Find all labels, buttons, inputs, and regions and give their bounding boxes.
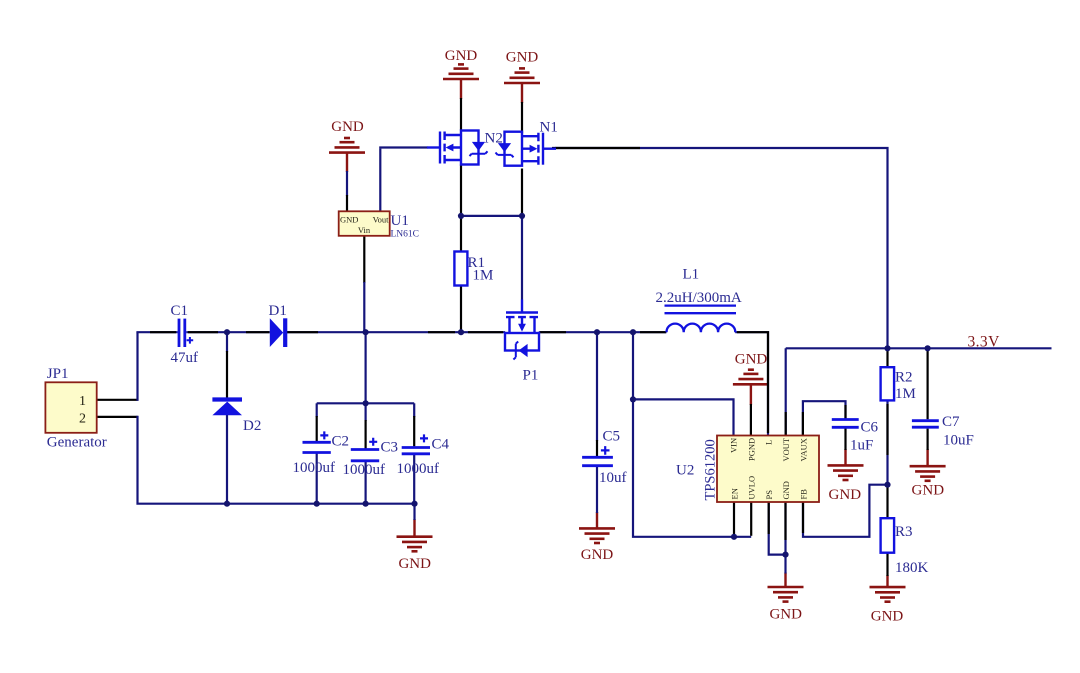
wire N2 source down bbox=[460, 165, 462, 216]
svg-text:C6: C6 bbox=[861, 420, 879, 436]
svg-text:GND: GND bbox=[331, 119, 364, 135]
wire U1 GND pin bbox=[346, 171, 348, 196]
wire FB node to R3 bbox=[886, 485, 888, 519]
wire P1 to L1 bbox=[539, 331, 667, 333]
wire L1 right to U2 L pin bbox=[735, 332, 768, 435]
svg-text:GND: GND bbox=[506, 50, 539, 66]
wire JP1 pin2 stub bbox=[97, 416, 138, 418]
wire JP1 pin2 down along bottom rail bbox=[138, 416, 415, 504]
wire N1 gate to right riser bbox=[555, 148, 888, 348]
svg-text:2: 2 bbox=[79, 412, 86, 427]
wire bottom rail to GND stem bbox=[413, 504, 415, 520]
node R1/rail bbox=[458, 329, 464, 335]
wire GND to N2 drain bbox=[460, 98, 462, 131]
svg-text:C5: C5 bbox=[603, 429, 621, 445]
wire C3 top lead bbox=[365, 403, 367, 421]
svg-text:C4: C4 bbox=[432, 437, 450, 453]
svg-text:GND: GND bbox=[781, 481, 791, 499]
wire 3.3V to C7 bbox=[926, 348, 928, 419]
wire R2 bottom to FB node bbox=[886, 400, 888, 484]
svg-text:D2: D2 bbox=[243, 418, 261, 434]
node D2/bottom rail bbox=[224, 501, 230, 507]
wire U2 GND pin down bbox=[784, 502, 786, 555]
wire D2 top bbox=[226, 332, 228, 352]
resistor R1 bbox=[454, 252, 493, 286]
svg-text:GND: GND bbox=[398, 556, 431, 572]
ground (top, above N2) bbox=[443, 48, 479, 99]
wire rail to C5 bbox=[596, 332, 598, 441]
svg-text:GND: GND bbox=[445, 48, 478, 64]
ground (above U2 PGND pin) bbox=[733, 352, 769, 406]
node PS/GND pins bbox=[782, 552, 788, 558]
svg-text:UVLO: UVLO bbox=[747, 476, 757, 500]
wire VIN node to U2 VIN pin bbox=[633, 399, 734, 435]
svg-text:EN: EN bbox=[730, 488, 740, 499]
wire JP1 pin1 up to input rail bbox=[136, 332, 138, 401]
svg-text:Vout: Vout bbox=[373, 215, 390, 225]
svg-text:GND: GND bbox=[581, 547, 614, 563]
node U1 Vin/rail bbox=[363, 329, 369, 335]
ground (below R3) bbox=[870, 575, 906, 625]
resistor R2 bbox=[881, 367, 916, 402]
svg-text:1: 1 bbox=[79, 394, 86, 409]
node C2/bottom rail bbox=[314, 501, 320, 507]
op-amp U2 TPS61200 bbox=[676, 436, 819, 503]
svg-text:LN61C: LN61C bbox=[391, 230, 420, 240]
wire C5 bottom lead bbox=[596, 466, 598, 513]
svg-text:1M: 1M bbox=[895, 386, 916, 402]
wire VIN node down to EN/UVLO bbox=[633, 399, 751, 536]
svg-text:L: L bbox=[764, 440, 774, 445]
capacitor C4 bbox=[397, 434, 450, 476]
ground (below C6) bbox=[828, 449, 864, 503]
node EN pin bbox=[731, 534, 737, 540]
capacitor C7 bbox=[912, 414, 974, 449]
ground (below U2 PS/GND pins) bbox=[768, 573, 804, 623]
node D2/input rail bbox=[224, 329, 230, 335]
svg-text:GND: GND bbox=[769, 607, 802, 623]
node VIN branch/rail bbox=[630, 329, 636, 335]
svg-text:10uF: 10uF bbox=[943, 433, 974, 449]
diode D1 bbox=[269, 303, 287, 347]
node 3.3V/R2 bbox=[884, 345, 890, 351]
net 3.3V rail bbox=[786, 347, 1052, 349]
resistor R3 bbox=[881, 518, 929, 576]
svg-text:C1: C1 bbox=[171, 303, 189, 319]
wire U1 Vout pin riser bbox=[379, 149, 381, 212]
svg-text:2.2uH/300mA: 2.2uH/300mA bbox=[656, 290, 742, 306]
svg-text:C7: C7 bbox=[942, 414, 960, 430]
capacitor C3 bbox=[343, 438, 399, 478]
svg-text:47uf: 47uf bbox=[171, 350, 199, 366]
node N1 source bbox=[519, 213, 525, 219]
svg-text:1000uf: 1000uf bbox=[293, 460, 336, 476]
wire N2 source to R1 bbox=[460, 216, 462, 252]
diode D2 bbox=[212, 400, 261, 435]
capacitor C6 bbox=[832, 420, 879, 454]
wire C6 bottom stub bbox=[844, 429, 846, 451]
transistor P1 (PMOS, gate top) bbox=[505, 300, 539, 360]
wire EN pin stub bbox=[733, 502, 735, 537]
wire N1 source to P1 gate bbox=[521, 216, 523, 300]
wire input rail to C1 bbox=[136, 331, 177, 333]
svg-text:C3: C3 bbox=[381, 440, 399, 456]
wire GND to N1 drain bbox=[521, 102, 523, 133]
svg-text:U1: U1 bbox=[391, 213, 409, 229]
svg-text:D1: D1 bbox=[269, 303, 287, 319]
svg-text:PGND: PGND bbox=[747, 438, 757, 461]
svg-text:10uf: 10uf bbox=[599, 470, 627, 486]
ground (top, above N1) bbox=[504, 50, 540, 104]
wire U1 Vout to N2 gate bbox=[379, 146, 427, 148]
wire U2 VAUX pin to C6 bbox=[803, 401, 846, 435]
wire C4 bottom lead bbox=[413, 454, 415, 504]
svg-text:N1: N1 bbox=[540, 120, 558, 136]
svg-text:GND: GND bbox=[912, 483, 945, 499]
wire R3 bottom bbox=[886, 553, 888, 576]
wire C7 bottom stub bbox=[926, 429, 928, 450]
wire N2-N1 source tie bbox=[461, 215, 522, 217]
ground (below C4 / bottom rail) bbox=[397, 519, 433, 572]
svg-text:TPS61200: TPS61200 bbox=[703, 439, 719, 500]
wire C1 to D1 anode bbox=[186, 331, 269, 333]
svg-text:P1: P1 bbox=[523, 368, 539, 384]
wire C2 top lead bbox=[316, 403, 318, 417]
node FB/R2/R3 bbox=[884, 482, 890, 488]
node C3 header bbox=[363, 400, 369, 406]
wire UVLO pin stub bbox=[750, 502, 752, 536]
wire JP1 pin1 stub bbox=[97, 399, 138, 401]
svg-text:3.3V: 3.3V bbox=[968, 334, 1001, 351]
wire U1 GND pin stub bbox=[346, 195, 348, 212]
wire C3 bottom lead bbox=[365, 462, 367, 504]
node 3.3V/C7 bbox=[925, 345, 931, 351]
node C5/rail bbox=[594, 329, 600, 335]
wire R1 to rail bbox=[460, 286, 462, 333]
wire C4 top lead bbox=[413, 403, 415, 417]
svg-text:Vin: Vin bbox=[358, 225, 371, 235]
wire U2 PS pin loop bbox=[769, 502, 786, 555]
transistor N2 (NMOS, gate left) bbox=[427, 131, 488, 165]
svg-text:VAUX: VAUX bbox=[798, 438, 808, 461]
svg-text:Generator: Generator bbox=[47, 435, 107, 451]
wire rail to C2-C4 header bbox=[365, 332, 367, 403]
ground (below C5) bbox=[579, 512, 615, 563]
wire U1 Vin pin to rail bbox=[363, 236, 365, 283]
svg-text:GND: GND bbox=[871, 609, 904, 625]
svg-text:C2: C2 bbox=[332, 434, 350, 450]
wire 3.3V to R2 bbox=[886, 348, 888, 367]
wire C5 top stub bbox=[596, 440, 598, 456]
svg-text:180K: 180K bbox=[895, 560, 929, 576]
svg-text:GND: GND bbox=[735, 352, 768, 368]
svg-text:GND: GND bbox=[340, 215, 358, 225]
connector JP1 bbox=[45, 366, 106, 451]
node C3/bottom rail bbox=[363, 501, 369, 507]
svg-text:1000uf: 1000uf bbox=[343, 462, 386, 478]
capacitor C1 bbox=[171, 303, 199, 366]
svg-text:VOUT: VOUT bbox=[781, 437, 791, 461]
wire PGND pin stub bbox=[750, 404, 752, 436]
node VIN loop corner bbox=[630, 396, 636, 402]
node N2 source bbox=[458, 213, 464, 219]
svg-text:PS: PS bbox=[764, 490, 774, 500]
inductor L1 bbox=[665, 306, 737, 333]
wire U2 VOUT pin to 3.3V rail bbox=[785, 348, 787, 435]
wire D1 cathode to P1 bbox=[287, 331, 505, 333]
wire N1 source down bbox=[521, 169, 523, 216]
svg-text:U2: U2 bbox=[676, 463, 694, 479]
svg-text:VIN: VIN bbox=[729, 438, 739, 453]
capacitor C5 bbox=[582, 429, 626, 486]
transistor N1 (NMOS, gate right) bbox=[496, 132, 557, 166]
svg-text:1M: 1M bbox=[473, 268, 494, 284]
svg-text:L1: L1 bbox=[683, 267, 700, 283]
svg-text:1000uf: 1000uf bbox=[397, 461, 440, 477]
svg-text:R3: R3 bbox=[895, 524, 913, 540]
ground (above U1 GND pin) bbox=[329, 119, 365, 172]
regulator U1 LN61C bbox=[339, 211, 419, 239]
capacitor C2 bbox=[293, 431, 350, 476]
wire D2 bottom bbox=[226, 415, 228, 504]
svg-text:JP1: JP1 bbox=[47, 366, 69, 382]
svg-text:1uF: 1uF bbox=[850, 438, 873, 454]
wire C2 bottom lead bbox=[316, 454, 318, 504]
wire rail to VIN node bbox=[632, 332, 634, 399]
ground (below C7) bbox=[910, 449, 946, 499]
wire C2-C4 top header bbox=[317, 402, 415, 404]
wire GND/PS node to ground bbox=[784, 555, 786, 574]
svg-text:GND: GND bbox=[829, 487, 862, 503]
svg-text:FB: FB bbox=[799, 489, 809, 500]
node C4/bottom rail bbox=[411, 501, 417, 507]
svg-text:R2: R2 bbox=[895, 370, 913, 386]
wire U2 FB pin loop bbox=[803, 485, 889, 537]
